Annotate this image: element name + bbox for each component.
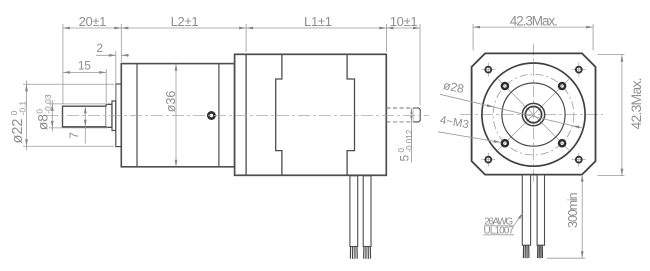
stripped wire ends (side view) <box>350 247 370 259</box>
front view vertical center line <box>533 44 535 185</box>
rear shaft hidden outline (dashed) <box>386 107 413 109</box>
M3 tapped hole top-right <box>559 83 565 89</box>
svg-text:10±1: 10±1 <box>390 14 418 29</box>
output shaft (flat section) <box>63 106 107 127</box>
dimension 2 (boss width) <box>115 51 117 100</box>
corner screw bottom-left <box>481 153 495 167</box>
corner screw top-left <box>481 63 495 77</box>
dimension 7 (shaft flat height) <box>84 106 86 143</box>
svg-text:UL1007: UL1007 <box>484 226 515 237</box>
dimension o36 (gearbox diameter) <box>175 64 177 167</box>
gearbox front plate line <box>136 64 138 167</box>
gearbox rear plate line <box>218 64 220 167</box>
motor lead wire ribbon 2 (side view) <box>363 176 371 247</box>
shaft circle o8 <box>522 103 544 125</box>
M3 tapped hole bottom-right <box>559 140 565 146</box>
shaft washer step <box>112 101 116 131</box>
front view horizontal center line <box>460 114 603 116</box>
bolt circle o28 (dash-dot) <box>493 74 574 155</box>
corner screw top-right <box>572 63 586 77</box>
dimension line 20±1 / L2±1 / L1±1 / 10±1 <box>63 27 420 29</box>
svg-text:ø8: ø8 <box>35 114 51 131</box>
dimension o22 0/-0.1 <box>23 83 114 85</box>
leader 26AWG UL1007 <box>484 225 514 227</box>
stripped wire ends (front view) <box>523 245 542 258</box>
dimension 42.3Max right <box>598 54 625 56</box>
mounting flange square <box>472 53 596 174</box>
svg-text:L2±1: L2±1 <box>171 14 199 29</box>
svg-text:ø28: ø28 <box>442 78 465 96</box>
side view center line <box>46 114 429 116</box>
M3 tapped hole top-left <box>502 83 508 89</box>
motor lead wire ribbon 1 (side view) <box>350 176 358 247</box>
gearbox set screw dot <box>208 112 214 118</box>
dimension o8 0/-0.03 <box>49 103 108 105</box>
motor lead wire ribbon 2 (front view) <box>537 175 544 245</box>
dimension 5 0/-0.012 (rear shaft dia) <box>410 108 412 163</box>
svg-text:ø22: ø22 <box>10 119 26 144</box>
svg-text:42.3Max.: 42.3Max. <box>510 13 558 28</box>
leader 4~M3 <box>438 132 500 143</box>
svg-text:5: 5 <box>398 155 412 162</box>
dimension 15 (shaft flat length) <box>105 69 107 103</box>
svg-text:-0.03: -0.03 <box>43 94 53 114</box>
gearbox circle o36 <box>482 63 585 166</box>
corner screw bottom-right <box>572 153 586 167</box>
motor front flange line <box>245 54 247 175</box>
svg-text:ø36: ø36 <box>164 91 178 113</box>
gearbox body <box>121 64 234 167</box>
dimension chain extension lines <box>63 24 420 106</box>
motor front cap step <box>276 54 282 175</box>
svg-text:2: 2 <box>96 41 103 55</box>
dimension 42.3Max top <box>472 24 474 51</box>
svg-text:4~M3: 4~M3 <box>439 114 470 131</box>
shaft collar (round o8 section) <box>106 104 112 127</box>
svg-text:20±1: 20±1 <box>79 14 107 29</box>
svg-text:15: 15 <box>78 58 91 72</box>
svg-text:L1±1: L1±1 <box>304 14 332 29</box>
motor lead wire ribbon 1 (front view) <box>522 175 530 245</box>
shaft inner circle <box>525 107 541 123</box>
diagonal center line 1 <box>498 79 569 150</box>
svg-text:7: 7 <box>67 132 81 139</box>
motor body <box>235 54 387 175</box>
svg-text:300min: 300min <box>566 192 580 228</box>
rear shaft tip <box>413 108 420 122</box>
boss circle o22 <box>502 83 565 146</box>
diagonal center line 2 <box>498 79 569 150</box>
dimension 300min <box>547 257 585 259</box>
leader o28 (bolt circle diameter) <box>440 94 583 128</box>
svg-text:42.3Max.: 42.3Max. <box>628 78 644 130</box>
gearbox boss o22 <box>116 84 122 147</box>
svg-text:-0.1: -0.1 <box>18 101 28 116</box>
M3 tapped hole bottom-left <box>502 140 508 146</box>
motor rear cap step <box>347 54 354 175</box>
svg-text:-0.012: -0.012 <box>405 129 414 152</box>
